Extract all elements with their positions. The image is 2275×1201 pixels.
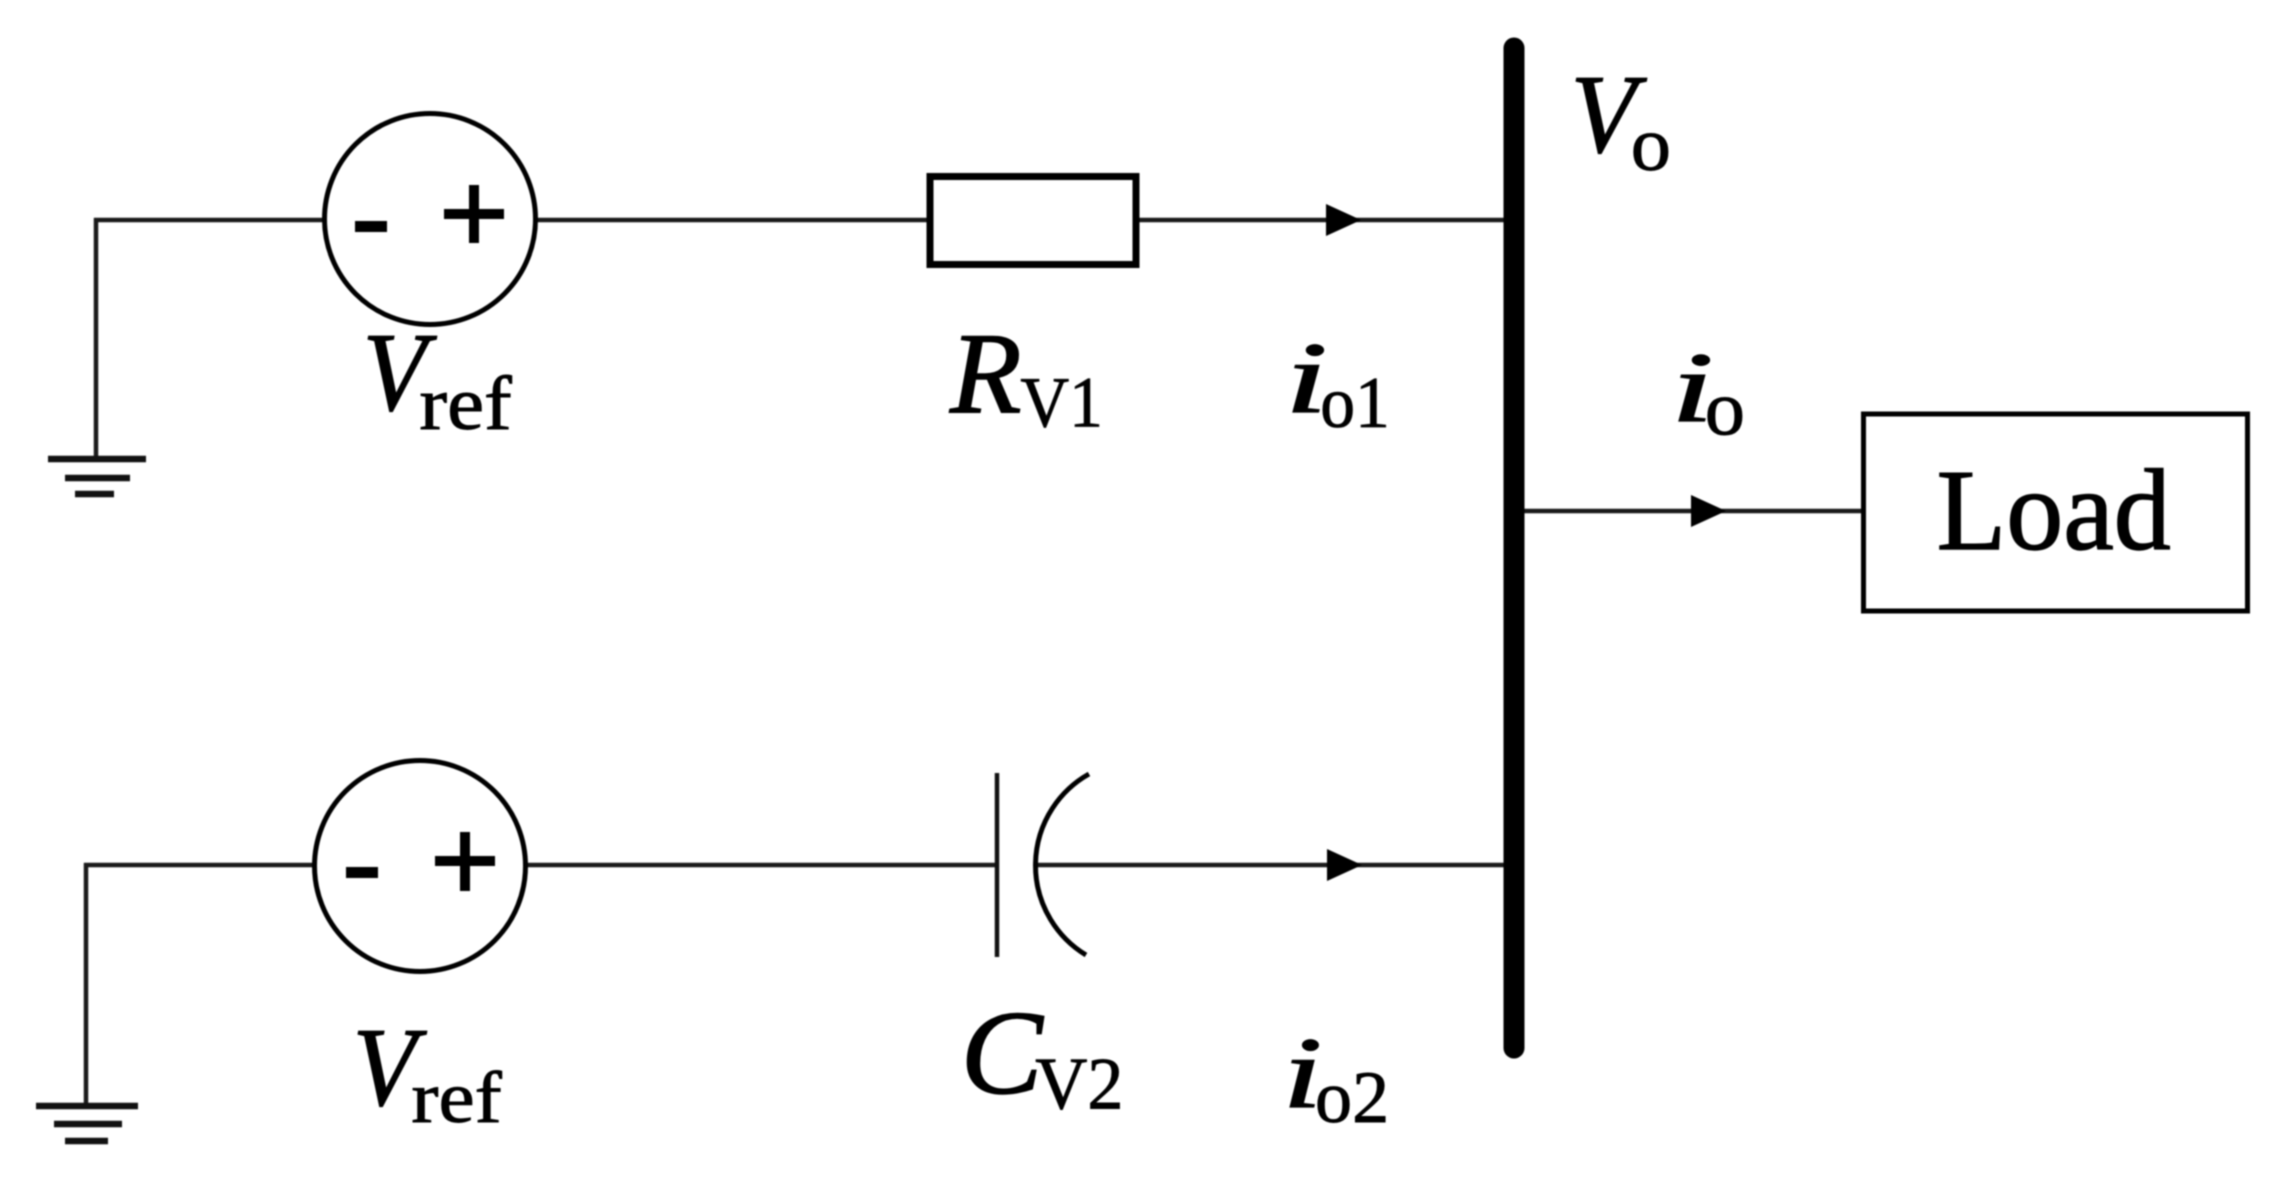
svg-text:o: o: [1631, 102, 1671, 187]
svg-text:o: o: [1705, 365, 1745, 452]
svg-text:o1: o1: [1320, 364, 1390, 444]
svg-text:ref: ref: [411, 1057, 502, 1138]
svg-text:o2: o2: [1315, 1057, 1389, 1139]
svg-text:V2: V2: [1035, 1042, 1123, 1124]
svg-text:R: R: [949, 310, 1022, 438]
svg-text:ref: ref: [419, 362, 512, 446]
svg-text:Load: Load: [1937, 446, 2171, 574]
svg-text:V1: V1: [1020, 364, 1103, 443]
svg-text:C: C: [961, 987, 1045, 1119]
